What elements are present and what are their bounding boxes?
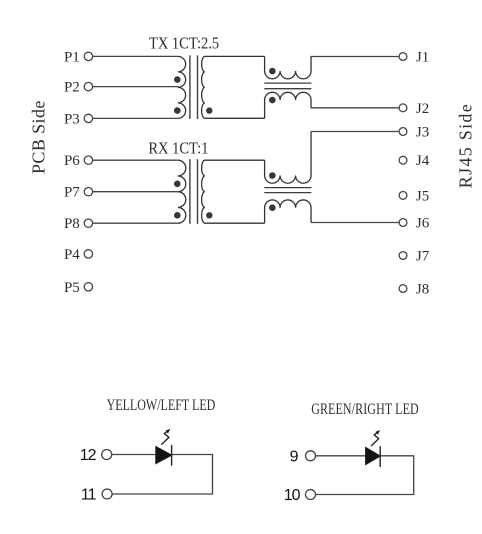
svg-text:YELLOW/LEFT LED: YELLOW/LEFT LED <box>107 396 216 414</box>
LED D2 triangle <box>366 447 381 464</box>
wire P8 to T2 primary <box>92 222 178 224</box>
svg-text:P1: P1 <box>64 49 80 65</box>
pin J6 <box>399 216 430 232</box>
svg-text:TX 1CT:2.5: TX 1CT:2.5 <box>149 35 219 53</box>
svg-text:RJ45 Side: RJ45 Side <box>455 103 475 188</box>
transformer T1 secondary phase dot <box>206 107 212 113</box>
svg-text:P7: P7 <box>64 185 80 201</box>
wire choke L2 to J6 <box>311 222 399 224</box>
pin P5 <box>64 280 93 296</box>
svg-text:J6: J6 <box>416 216 430 232</box>
pin J3 <box>399 125 429 141</box>
wire LED D2 to pin 10 <box>316 456 414 495</box>
pin J5 <box>399 188 429 204</box>
choke L1 top phase dot <box>269 68 276 75</box>
LED D2 light arrow <box>371 433 379 446</box>
svg-text:GREEN/RIGHT LED: GREEN/RIGHT LED <box>311 400 419 418</box>
pin 10 <box>284 487 316 504</box>
LED D1 cathode bar <box>171 445 173 466</box>
pin 12 <box>80 447 112 464</box>
transformer T2 primary phase dot lower <box>174 212 181 219</box>
choke L1 bottom phase dot <box>269 97 276 104</box>
svg-text:10: 10 <box>284 487 301 504</box>
svg-text:9: 9 <box>290 448 299 465</box>
pin P1 <box>64 49 93 65</box>
transformer T2 secondary phase dot <box>206 212 212 218</box>
wire P6 to T2 primary <box>92 159 178 161</box>
LED D2 cathode bar <box>379 446 381 467</box>
choke L2 top phase dot <box>269 172 276 179</box>
svg-text:J3: J3 <box>416 125 429 141</box>
choke L2 bottom winding <box>265 200 311 223</box>
transformer T2 primary winding <box>178 160 186 223</box>
pin P3 <box>64 111 93 127</box>
wire pin12 to LED D1 <box>112 454 156 456</box>
pin J7 <box>399 249 430 265</box>
transformer T1 primary phase dot upper <box>174 76 181 83</box>
choke L2 core <box>264 188 311 193</box>
choke L1 bottom winding <box>265 92 311 118</box>
transformer T1 primary phase dot lower <box>174 107 181 114</box>
svg-text:P4: P4 <box>64 247 80 263</box>
svg-text:P8: P8 <box>64 216 80 232</box>
svg-text:RX 1CT:1: RX 1CT:1 <box>148 140 208 158</box>
choke L1 core <box>264 83 311 89</box>
svg-text:11: 11 <box>81 487 97 504</box>
svg-text:J4: J4 <box>416 153 430 169</box>
pin 9 <box>290 448 316 465</box>
transformer T1 core <box>190 55 198 119</box>
svg-text:J8: J8 <box>416 282 429 298</box>
svg-text:PCB Side: PCB Side <box>28 100 48 174</box>
wire pin9 to LED D2 <box>316 455 366 457</box>
pin J2 <box>399 101 429 117</box>
pin P6 <box>64 153 93 169</box>
svg-text:P6: P6 <box>64 153 80 169</box>
LED D1 triangle <box>156 447 172 464</box>
pin P7 <box>64 185 93 201</box>
wire choke L1 to J1 <box>310 56 399 58</box>
pin 11 <box>81 487 112 504</box>
wire P7 to T2 primary center tap <box>92 191 178 193</box>
wire LED D1 to pin 11 <box>112 455 212 495</box>
svg-text:J2: J2 <box>416 101 429 117</box>
pin P8 <box>64 216 93 232</box>
pin J4 <box>399 153 430 169</box>
choke L2 top winding <box>265 132 311 184</box>
choke L1 top winding <box>265 56 311 78</box>
svg-text:P3: P3 <box>64 111 80 127</box>
svg-text:J5: J5 <box>416 188 429 204</box>
svg-text:J1: J1 <box>416 50 429 66</box>
pin J1 <box>399 50 429 66</box>
svg-text:J7: J7 <box>416 249 430 265</box>
svg-text:P5: P5 <box>64 280 80 296</box>
choke L2 bottom phase dot <box>269 204 276 211</box>
wire choke L2 to J3 <box>311 131 399 133</box>
transformer T1 secondary winding <box>202 56 265 118</box>
wire choke L1 to J2 <box>310 107 399 109</box>
svg-text:P2: P2 <box>64 80 80 96</box>
transformer T2 primary phase dot upper <box>174 181 181 188</box>
transformer T2 core <box>190 159 198 224</box>
wire P3 to T1 primary <box>92 117 178 119</box>
pin J8 <box>399 282 429 298</box>
transformer T2 secondary winding <box>202 160 265 223</box>
wire P2 to T1 primary center tap <box>92 86 178 88</box>
pin P2 <box>64 80 93 96</box>
LED D1 light arrow <box>161 431 169 444</box>
wire P1 to T1 primary <box>92 55 178 57</box>
svg-text:12: 12 <box>80 447 97 464</box>
transformer T1 primary winding <box>178 56 186 118</box>
pin P4 <box>64 247 93 263</box>
